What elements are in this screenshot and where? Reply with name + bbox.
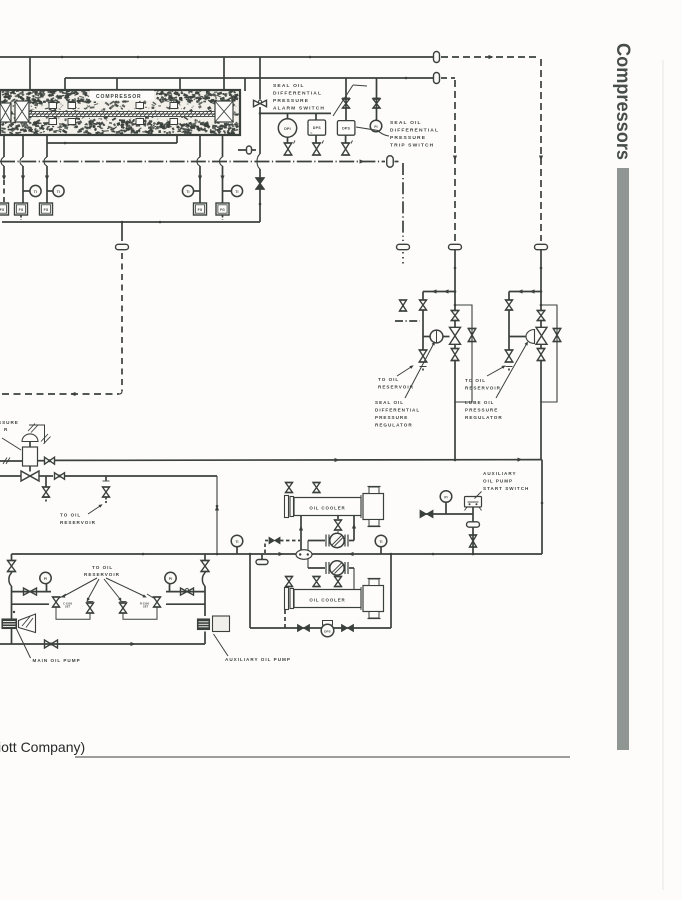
valve vent cooler lower 3 — [335, 577, 342, 587]
valve relief isolation left — [24, 588, 37, 595]
wire cooler loop right — [390, 554, 392, 628]
oil cooler upper water box — [363, 494, 384, 520]
bearing box right — [215, 101, 233, 122]
svg-text:ALARM SWITCH: ALARM SWITCH — [273, 106, 325, 112]
orifice symbol on drain drop — [116, 244, 129, 249]
svg-text:PRESSURE: PRESSURE — [375, 415, 408, 420]
leader tc oil reservoir — [487, 367, 503, 376]
sight glass FG-5 — [216, 203, 229, 215]
wire stub secondary right corner — [244, 78, 246, 91]
valve block aux branch — [420, 510, 433, 518]
sight glass FG-1 — [0, 203, 9, 215]
leader start switch — [475, 492, 482, 499]
valve bypass lube regulator — [553, 329, 561, 342]
svg-text:SEAL OIL: SEAL OIL — [390, 120, 422, 126]
svg-text:LUBE OIL: LUBE OIL — [465, 400, 494, 405]
oil cooler upper body — [294, 498, 361, 516]
shaft seal block 4 — [170, 103, 178, 109]
compressor casing body — [0, 90, 240, 135]
wire dashed drain run to reservoir — [2, 393, 119, 395]
wire relief branch right — [166, 603, 205, 605]
valve isolation below lube — [537, 349, 545, 361]
svg-text:REGULATOR: REGULATOR — [375, 423, 413, 428]
svg-text:TO OIL: TO OIL — [378, 377, 399, 382]
wire pump suction left — [11, 554, 13, 561]
valve vent between cooler and filter — [337, 516, 339, 520]
aux pump start switch — [465, 497, 482, 508]
svg-text:PI: PI — [44, 577, 47, 581]
bearing box left outer — [0, 103, 11, 122]
svg-text:MAIN OIL PUMP: MAIN OIL PUMP — [33, 658, 81, 663]
valve drain reg 2 — [105, 476, 107, 481]
svg-text:RESERVOIR: RESERVOIR — [378, 385, 414, 390]
svg-text:TC OIL: TC OIL — [465, 378, 486, 383]
instrument TI-2 — [53, 185, 64, 196]
valve relief isolation right — [181, 588, 194, 595]
valve loop bottom left — [298, 625, 310, 632]
svg-text:AUXILIARY OIL PUMP: AUXILIARY OIL PUMP — [225, 657, 291, 662]
drain tick seal sense — [420, 366, 427, 368]
valve drain reg 1 — [45, 476, 47, 487]
valve vent aux branch — [470, 535, 477, 547]
svg-text:REGULATOR: REGULATOR — [465, 415, 503, 420]
wire dashed drop to lube oil regulator — [540, 59, 542, 241]
wire drain line C — [46, 135, 48, 157]
wire drain line A — [3, 135, 5, 157]
svg-text:TI: TI — [379, 540, 382, 544]
svg-text:c.: c. — [311, 132, 313, 135]
flange break symbol on supply header — [434, 52, 440, 63]
valve vent cooler lower 1 — [286, 577, 293, 587]
orifice symbol on dash-dot drop — [397, 244, 410, 249]
valve block pump left — [8, 561, 16, 572]
dash-dot reference into regulator — [395, 320, 420, 322]
leader alarm switch — [353, 85, 367, 86]
valve ball small — [45, 457, 55, 464]
wire drain drop to reservoir — [121, 222, 123, 241]
pump main oil pump — [2, 619, 17, 629]
wire seal header stub — [47, 142, 177, 144]
wire lube regulator sense branch — [509, 291, 541, 293]
wire dotted tail — [402, 252, 404, 266]
svg-text:FG: FG — [0, 208, 5, 212]
orifice aux branch — [467, 522, 480, 527]
valve block on riser — [256, 178, 264, 189]
wire discharge line left — [0, 475, 21, 477]
wire drain line D — [199, 135, 201, 157]
wire switch stem — [472, 507, 474, 554]
wire cooler loop bottom — [250, 627, 391, 629]
wire discharge line right — [39, 475, 53, 477]
wire FG-2 drain tick — [20, 216, 22, 220]
valve loop bottom right — [342, 625, 354, 632]
valve isolation PI — [376, 78, 378, 120]
svg-text:DPS: DPS — [324, 630, 330, 634]
svg-text:SEAL OIL: SEAL OIL — [375, 400, 404, 405]
filter upper — [325, 535, 327, 547]
orifice drain below header — [261, 554, 263, 559]
valve vent bracket right — [120, 603, 127, 613]
leaders to oil reservoir pumps — [64, 578, 97, 596]
wire dashed drain drop — [121, 253, 123, 391]
valve globe on riser — [254, 100, 267, 107]
instrument TI header left — [231, 535, 243, 547]
wire lube sense lower — [508, 310, 510, 350]
svg-text:PI: PI — [169, 577, 172, 581]
svg-text:TI: TI — [235, 190, 238, 194]
valve needle on sense branch — [420, 300, 427, 310]
leader lube regulator — [496, 344, 527, 398]
svg-text:PRESSURE: PRESSURE — [390, 135, 426, 141]
svg-text:SET: SET — [143, 605, 149, 609]
wire main discharge header — [12, 553, 543, 555]
wire seal regulator main line — [454, 250, 456, 311]
wire relief branch left — [12, 603, 50, 605]
svg-text:START SWITCH: START SWITCH — [483, 486, 529, 491]
svg-text:FG: FG — [44, 208, 49, 212]
svg-text:SSURE: SSURE — [0, 420, 19, 425]
valve vent DPS-1 — [315, 135, 317, 142]
regulator pilot SDPR — [430, 330, 443, 343]
valve bypass seal regulator — [468, 329, 476, 342]
wire regulator bottom outlet — [29, 466, 31, 472]
svg-text:SEAL OIL: SEAL OIL — [273, 83, 305, 89]
svg-text:OIL PUMP: OIL PUMP — [483, 479, 513, 484]
svg-text:OIL COOLER: OIL COOLER — [309, 598, 345, 603]
instrument DPS-2 — [337, 121, 355, 136]
valve control lube regulator — [536, 327, 547, 344]
wire drain line A dashed tail — [3, 180, 5, 203]
wire seal regulator sense branch — [423, 291, 455, 293]
instrument PI pump right — [165, 572, 176, 583]
bearing box left inner — [15, 101, 29, 122]
flange break symbol on secondary header — [434, 73, 440, 84]
leader to oil reservoir left — [397, 367, 411, 376]
sidebar rule — [617, 168, 629, 750]
svg-text:DPS: DPS — [342, 127, 350, 131]
shaft seal block 3 — [136, 103, 144, 109]
valve ball small 2 — [55, 473, 65, 480]
valve needle lube sense — [506, 300, 513, 310]
svg-text:DPI: DPI — [284, 127, 291, 131]
leader to oil reservoir mid — [88, 506, 100, 514]
wire feed with break — [0, 460, 23, 462]
svg-text:DIFFERENTIAL: DIFFERENTIAL — [390, 128, 439, 134]
svg-text:PI: PI — [374, 125, 377, 129]
filter lower — [325, 562, 327, 574]
sight glass FG-2 — [15, 203, 28, 215]
wire relief bracket right — [123, 607, 157, 619]
transfer valve — [296, 550, 312, 560]
svg-text:FG: FG — [220, 208, 225, 212]
svg-text:PRESSURE: PRESSURE — [465, 408, 498, 413]
wire FG-5 drain tick — [222, 216, 224, 220]
wire seal-oil secondary header — [65, 77, 433, 79]
wire dashed drop to seal oil regulator — [441, 77, 455, 79]
svg-text:SET: SET — [65, 605, 71, 609]
svg-text:COMPRESSOR: COMPRESSOR — [96, 94, 142, 100]
valve control seal regulator — [450, 327, 461, 344]
leader trip switch — [378, 131, 389, 137]
wire instrument header — [260, 112, 331, 114]
valve vent standalone — [400, 300, 407, 311]
wire drain line E — [222, 135, 224, 157]
wire drain collection header — [2, 221, 260, 223]
pump auxiliary oil pump — [198, 619, 210, 630]
svg-text:TI: TI — [57, 190, 60, 194]
instrument TI-3 — [182, 185, 193, 196]
valve vent cooler upper 1 — [286, 483, 293, 493]
compressor label plate — [90, 91, 154, 101]
wire dash tail after pot — [395, 161, 401, 163]
svg-text:Compressors: Compressors — [612, 43, 633, 160]
valve vent cooler upper 2 — [313, 483, 320, 493]
svg-text:TO OIL: TO OIL — [92, 565, 113, 570]
sight glass FG-3 — [40, 203, 53, 215]
oil cooler upper left cap — [285, 496, 289, 518]
wire seal regulator bypass — [455, 305, 472, 402]
check valve discharge — [45, 640, 58, 648]
caption rule — [75, 756, 570, 758]
regulator valve body — [23, 447, 38, 466]
spring bracket — [29, 425, 45, 444]
svg-text:TRIP SWITCH: TRIP SWITCH — [390, 143, 434, 149]
svg-text:PRESSURE: PRESSURE — [273, 98, 309, 104]
wire dashed cooler lower drain — [284, 610, 286, 628]
valve drain seal sense — [419, 350, 427, 362]
wire relief header left — [12, 591, 52, 593]
wire stub secondary left corner — [64, 78, 66, 90]
svg-text:OIL COOLER: OIL COOLER — [309, 506, 345, 511]
wire lube regulator bypass — [541, 305, 557, 402]
wire cooler upper right drop — [353, 516, 355, 541]
compressor shaft — [29, 112, 215, 117]
leader auxiliary oil pump — [214, 634, 229, 656]
shaft seal block 1 — [49, 103, 57, 109]
valve vent DPS-2 — [345, 135, 347, 142]
wire compressor right stub — [238, 149, 256, 151]
valve isolation above — [451, 311, 459, 321]
wire right boundary — [541, 460, 543, 554]
wire riser left — [29, 57, 31, 90]
wire seal-oil supply header — [0, 56, 433, 58]
instrument DPI — [278, 119, 296, 137]
valve vent DPI — [287, 137, 289, 142]
wire regulator outlet — [38, 460, 45, 462]
instrument PI aux — [440, 491, 452, 503]
flange symbol right stub — [247, 146, 252, 154]
instrument PI gauge — [370, 120, 382, 132]
wire cooler loop left — [249, 554, 251, 628]
oil cooler lower left cap — [285, 588, 289, 610]
page edge shadow — [662, 60, 664, 890]
svg-text:RESERVOIR: RESERVOIR — [84, 572, 120, 577]
wire sense branch lower — [422, 310, 424, 350]
svg-text:AUXILIARY: AUXILIARY — [483, 471, 517, 476]
wire stub secondary mid2 — [179, 78, 181, 90]
instrument TI-4 — [231, 185, 242, 196]
wire aux PI branch — [420, 513, 473, 515]
svg-text:DPS: DPS — [313, 126, 321, 130]
valve main bowtie — [21, 471, 39, 481]
svg-text:TO OIL: TO OIL — [60, 513, 81, 518]
wire discharge to pump suction drop — [65, 475, 218, 477]
svg-text:DIFFERENTIAL: DIFFERENTIAL — [375, 408, 420, 413]
drain tick lube sense — [506, 366, 513, 368]
valve isolation below — [451, 349, 459, 361]
relief valve left — [53, 597, 60, 607]
leader seal regulator — [405, 344, 434, 398]
instrument DPS-1 — [308, 120, 326, 135]
leader main oil pump — [17, 629, 31, 658]
wire lube regulator main line — [540, 250, 542, 311]
valve block pump right — [201, 561, 209, 572]
svg-text:PI: PI — [444, 496, 447, 500]
svg-text:TI: TI — [235, 540, 238, 544]
wire pump discharge bottom — [0, 643, 205, 645]
instrument PI pump left — [40, 572, 51, 583]
shaft seal block 2 — [68, 103, 76, 109]
regulator diaphragm dome — [22, 434, 38, 442]
orifice symbol above lube regulator — [535, 244, 548, 249]
wire relief header right — [166, 591, 205, 593]
svg-text:R: R — [4, 427, 8, 432]
wire dashed header to lube regulator — [441, 56, 538, 58]
wire dash-dot reference line — [0, 161, 385, 163]
level pot symbol — [387, 156, 394, 168]
svg-text:TI: TI — [186, 190, 189, 194]
wire DPS1 stem — [315, 113, 317, 120]
sight glass FG-4 — [194, 203, 207, 215]
instrument DPS filters — [323, 621, 333, 626]
svg-text:iott Company): iott Company) — [0, 739, 85, 755]
regulator stem — [29, 442, 31, 448]
wire cooler upper left drop — [300, 516, 302, 555]
wire long line to right boundary — [55, 459, 543, 462]
valve bypass dashed — [264, 542, 266, 554]
instrument TI-1 — [30, 185, 41, 196]
relief valve right — [154, 597, 161, 607]
wire drain line B — [22, 135, 24, 157]
valve drain lube sense — [505, 350, 513, 362]
regulator actuator lube — [526, 330, 535, 344]
wire dash-dot drop to vent — [402, 163, 404, 241]
wire relief bracket left — [56, 607, 90, 619]
svg-text:TI: TI — [34, 190, 37, 194]
valve isolation DPS-2 — [345, 78, 347, 121]
svg-text:RESERVOIR: RESERVOIR — [60, 520, 96, 525]
wire pump suction right — [204, 554, 206, 561]
svg-text:FG: FG — [198, 208, 203, 212]
orifice symbol above seal regulator — [449, 244, 462, 249]
svg-text:FG: FG — [19, 208, 24, 212]
leader left regulator — [2, 438, 21, 450]
wire riser right — [223, 57, 225, 90]
svg-text:DIFFERENTIAL: DIFFERENTIAL — [273, 91, 322, 97]
valve vent cooler lower 2 — [313, 577, 320, 587]
oil cooler lower body — [294, 590, 361, 608]
valve vent bracket left — [87, 603, 94, 613]
svg-text:RESERVOIR: RESERVOIR — [465, 386, 501, 391]
wire instrument riser — [259, 57, 261, 100]
valve isolation above lube — [537, 311, 545, 321]
oil cooler lower water box — [363, 586, 384, 612]
instrument TI header right — [375, 535, 387, 547]
wire DPI stem — [287, 113, 289, 118]
wire stub secondary mid — [116, 78, 118, 90]
